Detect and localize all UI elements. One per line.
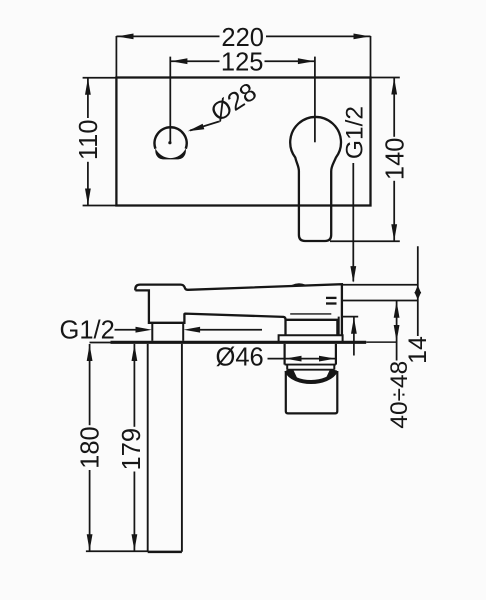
dimension 125 extension line to handle center xyxy=(314,57,316,143)
side view lower pointer line xyxy=(353,317,355,355)
svg-text:125: 125 xyxy=(221,49,264,77)
shank cylinder Ø46 xyxy=(284,344,286,365)
deck thin extension to 40÷48 dim xyxy=(366,341,396,343)
G1/2 inlet box below spout xyxy=(151,323,153,341)
svg-text:Ø28: Ø28 xyxy=(206,78,262,128)
G1/2 arrow right xyxy=(115,329,138,331)
Ø46 dimension line with arrows xyxy=(285,358,336,360)
spout small top bump xyxy=(292,284,305,286)
dimension 140 line xyxy=(393,78,395,137)
svg-text:14: 14 xyxy=(404,336,432,364)
bottom extension line xyxy=(86,550,148,552)
escutcheon flange xyxy=(279,335,343,341)
cartridge equal marks xyxy=(326,297,337,299)
dimension 14 extension line bottom xyxy=(342,300,418,302)
dimension 220 extension line right xyxy=(370,36,372,78)
body block top and right edge xyxy=(286,320,338,336)
dimension 125 line xyxy=(170,60,219,62)
Ø46 leader xyxy=(268,358,285,360)
dimension 14 extension line top xyxy=(342,284,418,286)
spout hole center dot xyxy=(168,141,171,144)
dimension 180 line xyxy=(89,344,91,425)
svg-text:110: 110 xyxy=(75,119,103,160)
svg-text:179: 179 xyxy=(118,428,146,471)
dimension 179 line xyxy=(133,344,135,427)
svg-text:G1/2: G1/2 xyxy=(60,317,115,345)
dimension 110 extension line top xyxy=(83,77,117,79)
wall/deck thick line xyxy=(90,342,111,344)
spout outline lower / mouth xyxy=(135,290,285,335)
dimension 14 bowtie arrows xyxy=(414,285,421,293)
mounting nut rectangle xyxy=(286,371,338,413)
G1/2 leader line down to side view xyxy=(352,163,354,282)
dimension 125 extension line to hole center xyxy=(169,57,171,143)
dimension 220 extension line left xyxy=(115,36,117,78)
spout hole circle Ø28 xyxy=(155,127,187,148)
horseshoe washer thick arc xyxy=(286,371,336,382)
body step right vertical xyxy=(338,317,340,336)
svg-text:140: 140 xyxy=(381,138,409,181)
water stream / projection rectangle xyxy=(147,344,149,552)
svg-text:Ø46: Ø46 xyxy=(216,344,264,372)
label Ø28 leader arrow xyxy=(190,122,219,131)
spout outline upper (side view) xyxy=(135,284,342,335)
internal panel line xyxy=(290,313,331,315)
dimension 110 line xyxy=(87,78,89,118)
handle (front view keyhole shape) xyxy=(290,117,341,241)
shank neck xyxy=(286,365,288,370)
dimension 40÷48 line xyxy=(396,301,398,361)
dimension 140 extension line top xyxy=(371,77,400,79)
G1/2 arrow left xyxy=(199,329,262,331)
spout hole thick bottom cradle xyxy=(155,148,186,159)
dimension 140 extension line bottom xyxy=(330,240,400,242)
body step extension line xyxy=(342,316,358,318)
svg-text:180: 180 xyxy=(76,426,104,469)
dimension 220 line xyxy=(116,35,219,37)
dimension 14 line xyxy=(417,246,419,336)
svg-text:40÷48: 40÷48 xyxy=(386,361,413,429)
wall plate rectangle (front view) xyxy=(116,78,370,206)
svg-text:G1/2: G1/2 xyxy=(342,106,369,159)
dimension 110 extension line bottom xyxy=(83,205,117,207)
